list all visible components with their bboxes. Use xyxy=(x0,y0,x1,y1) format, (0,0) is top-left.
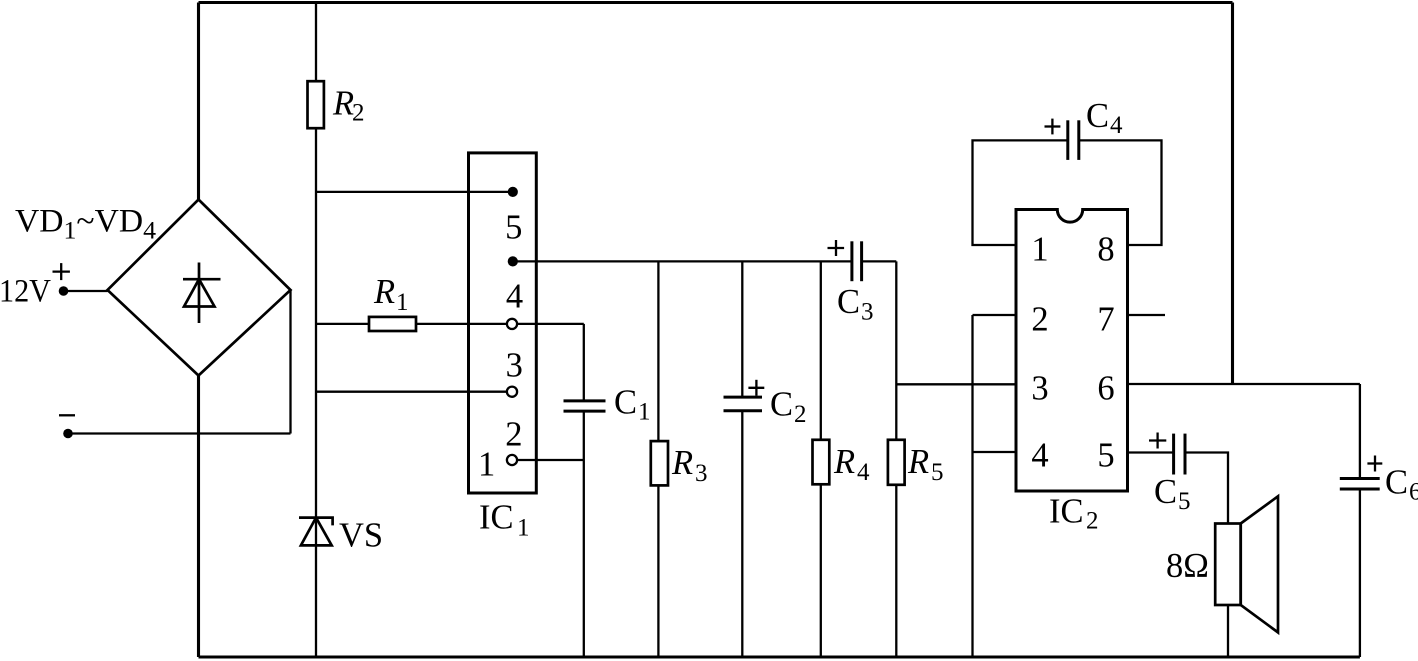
node + terminal dot xyxy=(59,286,69,296)
capacitor C2 xyxy=(724,261,763,657)
label + sign at C2 xyxy=(748,380,764,396)
label + sign at 12V xyxy=(53,263,70,280)
svg-text:1: 1 xyxy=(1031,231,1048,269)
pin IC1 open circle row 460 xyxy=(507,455,517,465)
svg-text:C: C xyxy=(1385,464,1408,502)
svg-text:2: 2 xyxy=(1031,301,1048,339)
wire C3 to R5 xyxy=(862,260,897,262)
zener diode VS xyxy=(299,518,333,546)
label + sign at C6 xyxy=(1367,456,1382,472)
wire IC2 pin6 to C6 xyxy=(1128,383,1360,385)
node - terminal dot xyxy=(63,429,73,439)
node IC1 pin5 dot xyxy=(508,187,518,197)
label IC1 xyxy=(479,499,530,542)
svg-text:5: 5 xyxy=(1178,488,1191,515)
svg-text:C: C xyxy=(614,384,637,422)
wire IC1 internal node row4 to R5 (left part) xyxy=(513,260,852,262)
svg-text:R: R xyxy=(332,85,354,123)
wire right supply rail xyxy=(1231,3,1234,385)
svg-text:2: 2 xyxy=(352,100,365,127)
wire to IC1 pin5 xyxy=(316,191,513,193)
svg-text:4: 4 xyxy=(506,277,523,315)
label C1 xyxy=(614,384,651,426)
label IC2 xyxy=(1049,493,1099,535)
svg-text:7: 7 xyxy=(1097,301,1114,339)
capacitor C3 xyxy=(852,241,862,281)
wire stub IC2 pin2 xyxy=(973,314,1017,316)
bridge rectifier VD1~VD4 diamond xyxy=(108,200,291,376)
svg-text:4: 4 xyxy=(1031,437,1048,475)
svg-text:5: 5 xyxy=(505,208,522,246)
svg-text:3: 3 xyxy=(506,347,523,385)
wire R1 to IC1 pin4 and on to C1 top xyxy=(416,323,584,325)
wire + terminal to bridge xyxy=(64,290,108,292)
svg-text:6: 6 xyxy=(1409,479,1418,506)
label R2 xyxy=(332,85,365,127)
wire C4 loop right xyxy=(1079,140,1162,245)
resistor R1 xyxy=(369,317,416,331)
svg-text:6: 6 xyxy=(1097,370,1114,408)
label R5 xyxy=(907,443,944,486)
label R1 xyxy=(373,273,409,316)
svg-text:1: 1 xyxy=(478,446,495,484)
label + sign at C3 xyxy=(828,240,845,256)
capacitor C4 xyxy=(1068,120,1079,160)
svg-text:C: C xyxy=(837,283,860,321)
wire R2 line to IC1 pin3 xyxy=(316,391,512,393)
svg-text:8Ω: 8Ω xyxy=(1166,547,1209,585)
wire left border upper segment xyxy=(197,3,200,200)
label C6 xyxy=(1385,464,1418,506)
label C4 xyxy=(1086,97,1123,139)
capacitor C5 xyxy=(1174,434,1185,475)
wire top supply rail xyxy=(199,1,1233,4)
label R4 xyxy=(833,443,870,486)
svg-text:4: 4 xyxy=(857,459,870,486)
label + sign at C5 xyxy=(1149,433,1166,449)
svg-text:2: 2 xyxy=(794,401,807,428)
svg-text:1: 1 xyxy=(396,289,409,316)
resistor R5 xyxy=(888,261,905,657)
wire from top rail to R2 xyxy=(315,3,317,82)
wire bottom ground rail xyxy=(199,655,1360,658)
svg-text:3: 3 xyxy=(695,460,708,487)
wire left border lower segment xyxy=(197,376,200,658)
svg-text:5: 5 xyxy=(931,459,944,486)
wire R2 line to R1 xyxy=(316,323,369,325)
svg-text:IC: IC xyxy=(479,499,514,537)
label C3 xyxy=(837,283,874,326)
svg-text:IC: IC xyxy=(1049,493,1084,531)
svg-text:VS: VS xyxy=(339,517,383,555)
op-amp IC2 box with notch xyxy=(1016,210,1128,492)
svg-text:1: 1 xyxy=(517,515,530,542)
label C2 xyxy=(770,386,807,429)
svg-text:2: 2 xyxy=(505,416,522,454)
resistor R2 xyxy=(308,81,324,128)
pin IC1 open circle row 392 xyxy=(507,387,517,397)
node IC1 row4 dot xyxy=(508,256,518,266)
pin IC1 open circle row 324 xyxy=(507,319,517,329)
svg-text:R: R xyxy=(833,443,855,481)
label C5 xyxy=(1154,473,1191,515)
wire speaker to ground rail xyxy=(1227,605,1229,657)
svg-text:R: R xyxy=(907,443,929,481)
capacitor C6 xyxy=(1340,384,1380,657)
wire stub IC2 pin4 xyxy=(973,451,1017,453)
svg-text:C: C xyxy=(770,386,793,424)
svg-text:2: 2 xyxy=(1086,508,1099,535)
diode symbol inside bridge xyxy=(183,263,221,324)
resistor R3 xyxy=(651,261,668,657)
capacitor C1 xyxy=(564,324,606,657)
label R3 xyxy=(671,444,708,487)
svg-text:5: 5 xyxy=(1097,437,1114,475)
svg-text:R: R xyxy=(373,273,395,311)
wire stub IC2 pin7 xyxy=(1128,314,1166,316)
svg-text:R: R xyxy=(671,444,693,482)
wire - terminal to bridge right vertex xyxy=(68,290,291,434)
label + sign at C4 xyxy=(1045,119,1061,135)
wire IC2 pins 2-3-4 vertical to ground xyxy=(971,315,973,657)
label - sign xyxy=(59,414,75,416)
svg-text:C: C xyxy=(1086,97,1109,135)
svg-text:1: 1 xyxy=(638,399,651,426)
wire C5 to speaker xyxy=(1185,453,1228,524)
wire IC1 pin1 to C1 bottom xyxy=(512,459,584,461)
IC1 box xyxy=(469,153,537,493)
wire R2 down to ground rail through VS xyxy=(315,128,317,657)
svg-text:3: 3 xyxy=(1031,370,1048,408)
speaker horn xyxy=(1241,496,1278,632)
label VD1~VD4 xyxy=(15,204,157,245)
resistor R4 xyxy=(813,261,830,657)
wire R5 to IC2 pin3 xyxy=(896,383,1016,385)
speaker 8ohm body xyxy=(1215,524,1241,606)
svg-text:12V: 12V xyxy=(0,274,51,310)
wire C4 loop left xyxy=(973,140,1068,245)
svg-text:C: C xyxy=(1154,473,1177,511)
svg-text:8: 8 xyxy=(1097,231,1114,269)
svg-text:4: 4 xyxy=(1110,112,1123,139)
svg-text:VD1~VD4: VD1~VD4 xyxy=(15,204,157,245)
wire IC2 pin5 to C5 xyxy=(1128,451,1174,453)
svg-text:3: 3 xyxy=(861,299,874,326)
